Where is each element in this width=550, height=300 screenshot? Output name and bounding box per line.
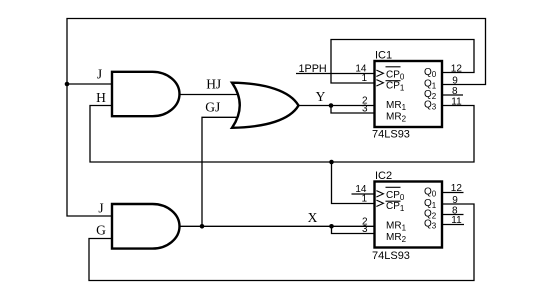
svg-text:IC1: IC1 bbox=[375, 50, 392, 62]
node: junction on Y net bbox=[329, 103, 334, 108]
wire: net G from IC2 Q1 (pin9) around bottom to G input bbox=[89, 204, 474, 281]
wire: J branch to upper AND gate bbox=[67, 83, 112, 85]
wire: IC2 Q3 pin11 stub bbox=[442, 224, 464, 226]
wire: IC2 Q0 pin12 stub bbox=[442, 192, 464, 194]
svg-text:1: 1 bbox=[361, 194, 367, 205]
node: junction X-MR bbox=[329, 224, 334, 229]
svg-text:J: J bbox=[97, 67, 102, 82]
IC1 clock chevron CP0 bbox=[376, 70, 383, 76]
svg-text:74LS93: 74LS93 bbox=[372, 250, 410, 262]
svg-text:X: X bbox=[308, 210, 318, 225]
IC2 74LS93 body bbox=[375, 182, 443, 248]
wire: net J top loop (IC1 Q1 pin9 to J inputs of both AND gates) bbox=[67, 19, 486, 217]
svg-text:G: G bbox=[96, 223, 106, 238]
IC1 pin label CP0 with overline bbox=[386, 67, 405, 82]
wire: net Y from OR gate to IC1 MR1 pin2 bbox=[298, 105, 375, 107]
svg-text:IC2: IC2 bbox=[375, 170, 392, 182]
svg-text:H: H bbox=[96, 90, 106, 105]
wire: IC2 pin14 stub bbox=[352, 193, 375, 195]
wire: IC1 Q2 pin8 stub bbox=[442, 94, 463, 96]
IC2 pin label CP0 with overline bbox=[386, 187, 405, 202]
wire: HJ from upper AND gate output to OR gate input bbox=[178, 94, 239, 96]
node: junction on J net bbox=[65, 82, 70, 87]
IC1 74LS93 body bbox=[375, 61, 443, 127]
IC2 clock chevron CP1 bbox=[376, 200, 383, 206]
svg-text:3: 3 bbox=[362, 104, 368, 115]
svg-text:3: 3 bbox=[362, 224, 368, 235]
wire: 1PPH input to IC1 pin14 bbox=[296, 73, 375, 75]
svg-text:12: 12 bbox=[451, 183, 463, 194]
wire: H net branch down to IC2 pin1 CP1 bbox=[332, 162, 375, 204]
node: junction on H net bbox=[329, 160, 334, 165]
IC2 clock chevron CP0 bbox=[376, 191, 383, 197]
AND gate U2 (inputs J,G) bbox=[112, 204, 180, 249]
svg-text:HJ: HJ bbox=[206, 76, 221, 91]
wire: X branch to IC2 MR2 pin3 bbox=[332, 226, 375, 233]
svg-text:J: J bbox=[98, 200, 103, 215]
svg-text:12: 12 bbox=[451, 64, 463, 75]
IC1 pin label CP1 with overline bbox=[386, 81, 405, 93]
wire: net X from lower AND gate to IC2 MR1 pin2 bbox=[180, 225, 375, 227]
svg-text:1: 1 bbox=[361, 73, 367, 84]
OR gate U3 (inputs HJ,GJ output Y) bbox=[232, 83, 299, 128]
svg-text:11: 11 bbox=[451, 96, 462, 107]
svg-text:9: 9 bbox=[452, 195, 458, 206]
wire: Y branch to IC1 MR2 pin3 bbox=[331, 106, 375, 114]
svg-text:GJ: GJ bbox=[205, 100, 220, 115]
wire: IC1 Q0 (pin12) feedback to CP1 (pin1) bbox=[331, 40, 474, 84]
AND gate U1 (inputs J,H) bbox=[112, 72, 179, 116]
svg-text:1PPH: 1PPH bbox=[299, 63, 327, 75]
wire: GJ branch from X net up to OR gate input bbox=[202, 117, 238, 226]
wire: IC2 Q2 pin8 stub bbox=[442, 214, 464, 216]
svg-text:Y: Y bbox=[316, 89, 326, 104]
svg-text:74LS93: 74LS93 bbox=[372, 129, 410, 141]
IC1 clock chevron CP1 bbox=[376, 80, 383, 86]
node: junction X-GJ bbox=[200, 224, 205, 229]
svg-text:11: 11 bbox=[451, 215, 462, 226]
IC2 pin label CP1 with overline bbox=[386, 201, 405, 213]
wire: net H from IC1 Q3 (pin11) to H input and IC2 CP1 bbox=[90, 106, 474, 163]
svg-text:9: 9 bbox=[452, 75, 458, 86]
